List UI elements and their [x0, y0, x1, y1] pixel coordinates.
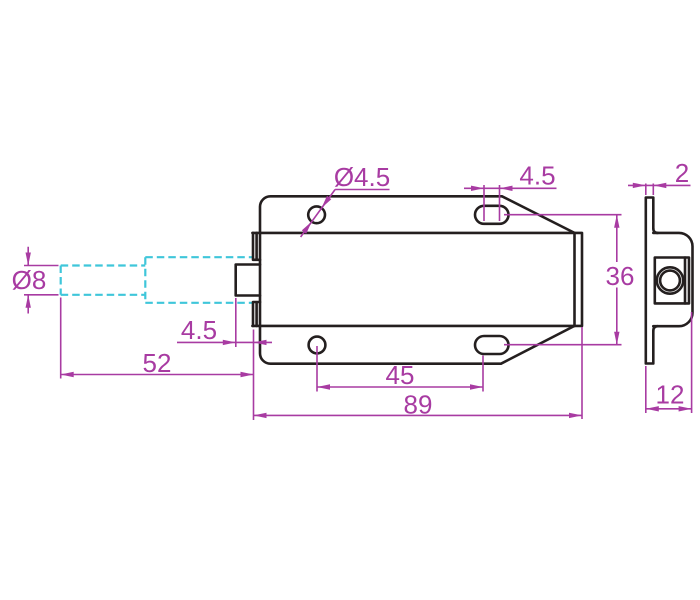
button outer circle [657, 267, 683, 293]
dim 4.5 left line [177, 341, 272, 343]
arrow 4.5 top left [471, 186, 484, 191]
arrow 36 top [614, 215, 619, 228]
dim 89 line [254, 414, 583, 416]
dim 2 line [628, 184, 691, 186]
plunger rod phantom [61, 266, 146, 295]
svg-text:4.5: 4.5 [519, 160, 555, 190]
dim 52 line [61, 374, 254, 376]
phantom extended plunger (cyan dashed) [61, 257, 253, 303]
arrow Ø4.5 lower [302, 222, 312, 234]
plate-to-body fillets [653, 228, 658, 331]
top fold line [252, 232, 574, 235]
plunger tip (retracted) [236, 265, 260, 296]
svg-text:45: 45 [386, 360, 415, 390]
svg-text:12: 12 [656, 379, 685, 409]
dim 52 extension lines [60, 298, 62, 379]
arrow 4.5 left a [223, 340, 236, 345]
dim 4.5 top extension lines [484, 185, 500, 221]
dim 4.5 top line [464, 187, 557, 189]
dim 4.5 left extension lines [236, 298, 254, 420]
dim 89 extension line [581, 327, 583, 419]
seat inner line [684, 258, 687, 304]
arrow 45 left [317, 384, 330, 389]
dim Ø8 extension lines [24, 266, 59, 295]
arrow 2 right [653, 183, 666, 188]
svg-text:Ø4.5: Ø4.5 [334, 162, 390, 192]
bottom mounting hole [309, 337, 326, 354]
arrow 52 right [241, 372, 254, 377]
svg-text:2: 2 [675, 158, 689, 188]
svg-text:36: 36 [606, 261, 635, 291]
svg-text:Ø8: Ø8 [12, 265, 47, 295]
dim 45 extension lines [317, 346, 483, 392]
arrowheads [26, 183, 692, 418]
dim Ø4.5 leader [301, 190, 390, 238]
top mounting hole [308, 206, 325, 223]
dimension texts [12, 158, 690, 419]
dim Ø8 line [27, 247, 29, 314]
right end cap inner line [573, 233, 576, 326]
arrow 89 left [254, 413, 267, 418]
arrow 45 right [470, 384, 483, 389]
dim 12 line [646, 408, 692, 410]
arrow 89 right [569, 413, 582, 418]
svg-text:52: 52 [143, 348, 172, 378]
arrow 36 bottom [614, 332, 619, 345]
dim 36 line [616, 215, 618, 345]
arrow 4.5 top right [500, 186, 513, 191]
button inner circle [660, 271, 680, 291]
arrow 52 left [61, 372, 74, 377]
dim 12 extension lines [646, 312, 692, 413]
dim 45 line [317, 386, 483, 388]
svg-text:89: 89 [404, 389, 433, 419]
side view [646, 198, 693, 364]
svg-text:4.5: 4.5 [181, 315, 217, 345]
arrow 2 left [633, 183, 646, 188]
top slot [475, 206, 509, 224]
dim 36 extension lines [504, 215, 622, 345]
arrow 4.5 left b [254, 340, 267, 345]
arrow Ø4.5 upper [322, 196, 332, 208]
side body profile [653, 233, 692, 326]
latch body outline (front view) [260, 196, 582, 363]
arrow 12 left [646, 406, 659, 411]
plunger collar phantom [145, 257, 253, 303]
bottom fold line [252, 325, 574, 328]
left lip (plunger guide) [253, 233, 260, 326]
dimensions [24, 184, 692, 421]
arrow Ø8 bottom [26, 295, 31, 308]
mounting plate (side view) [646, 198, 654, 364]
dim 2 extension lines [646, 184, 654, 196]
arrow Ø8 top [26, 253, 31, 266]
arrow 12 right [679, 406, 692, 411]
magnet seat [655, 258, 689, 304]
bottom slot [475, 336, 509, 354]
